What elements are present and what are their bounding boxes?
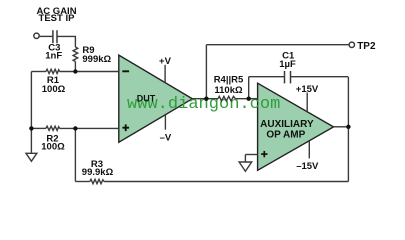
- svg-text:DUT: DUT: [137, 94, 156, 104]
- svg-text:+15V: +15V: [296, 84, 319, 95]
- svg-text:R4||R5: R4||R5: [214, 74, 244, 85]
- svg-text:AUXILIARY: AUXILIARY: [260, 119, 314, 130]
- svg-text:100Ω: 100Ω: [42, 84, 66, 95]
- svg-text:–15V: –15V: [296, 161, 319, 172]
- svg-text:+V: +V: [159, 56, 172, 67]
- svg-text:OP AMP: OP AMP: [266, 130, 305, 141]
- svg-text:TEST IP: TEST IP: [39, 13, 76, 24]
- svg-text:99.9kΩ: 99.9kΩ: [82, 167, 114, 178]
- svg-text:TP2: TP2: [357, 41, 376, 52]
- svg-text:999kΩ: 999kΩ: [82, 54, 111, 65]
- svg-text:–V: –V: [160, 133, 172, 144]
- svg-text:100Ω: 100Ω: [41, 142, 65, 153]
- svg-text:1nF: 1nF: [45, 50, 62, 61]
- svg-text:1µF: 1µF: [279, 59, 296, 70]
- svg-text:110kΩ: 110kΩ: [214, 85, 243, 96]
